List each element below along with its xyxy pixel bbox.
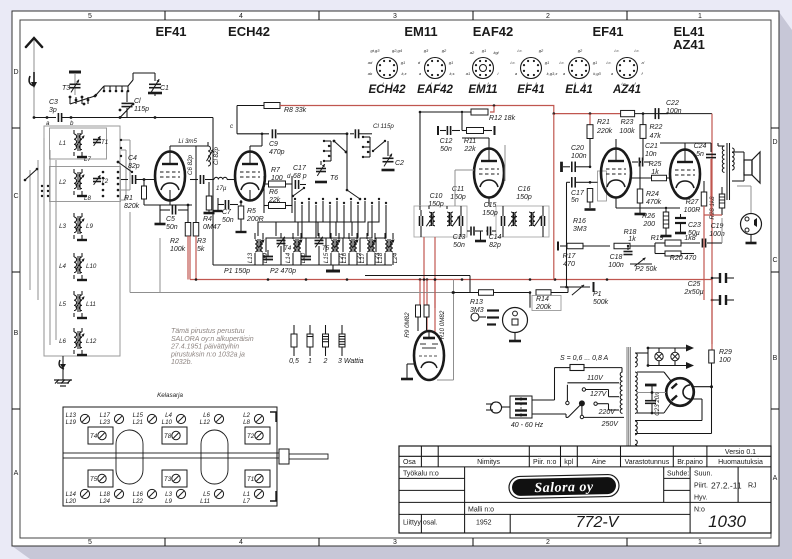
- svg-text:R22: R22: [650, 124, 663, 131]
- salora logo: [509, 474, 619, 498]
- socket EL41: [559, 48, 601, 96]
- resistor R11 22k: [467, 128, 484, 134]
- IF shield boxes: [414, 206, 467, 237]
- svg-text:R16: R16: [573, 218, 586, 225]
- capacitors C25 2x50u: [720, 273, 726, 305]
- svg-text:L8: L8: [243, 419, 250, 426]
- phono socket: [503, 308, 528, 333]
- svg-text:Osa: Osa: [403, 459, 416, 466]
- svg-text:P1: P1: [593, 291, 602, 298]
- svg-text:k,g3,x: k,g3,x: [547, 71, 559, 76]
- svg-text:150p: 150p: [450, 194, 466, 201]
- coil transformer L6/L12: [59, 328, 97, 355]
- svg-text:115p: 115p: [134, 106, 149, 113]
- resistor R3 5k: [193, 223, 199, 237]
- resistor R2 100k: [185, 223, 191, 237]
- svg-text:C11: C11: [452, 186, 464, 193]
- svg-text:C21: C21: [645, 143, 658, 150]
- svg-text:C15: C15: [484, 202, 497, 209]
- svg-text:1: 1: [698, 539, 702, 546]
- svg-text:RJ: RJ: [748, 483, 757, 490]
- svg-text:L15: L15: [133, 412, 144, 419]
- red drop x555: [553, 114, 555, 280]
- svg-text:a2: a2: [470, 50, 475, 55]
- capacitor C14 82p: [488, 227, 491, 236]
- svg-text:R8 33k: R8 33k: [284, 107, 307, 114]
- cathode to C7 R5: [249, 190, 251, 200]
- coil transformer L1/L7: [59, 130, 108, 163]
- wire C3 to junctions: [62, 117, 160, 119]
- grey feedback wire: [716, 242, 722, 244]
- svg-text:L18: L18: [377, 252, 384, 263]
- svg-text:R26: R26: [642, 213, 655, 220]
- svg-text:82p: 82p: [489, 242, 501, 249]
- svg-text:L15: L15: [323, 252, 330, 263]
- cap P2 470p: [301, 257, 311, 260]
- capacitor C20 100n: [560, 162, 563, 172]
- grey rail branches: [159, 238, 161, 293]
- svg-text:L19: L19: [66, 419, 77, 426]
- resistor R29 100: [709, 350, 715, 363]
- svg-text:Suhde:: Suhde:: [667, 471, 689, 478]
- chassis outline: [63, 407, 277, 506]
- svg-text:Suun.: Suun.: [694, 471, 712, 478]
- socket EF41: [510, 48, 558, 96]
- svg-text:0M47: 0M47: [203, 224, 222, 231]
- shaft: [63, 453, 279, 458]
- trimmer T4: [277, 241, 286, 244]
- svg-text:C4: C4: [128, 155, 137, 162]
- svg-text:Cl 115p: Cl 115p: [373, 123, 394, 130]
- potentiometer P1 500k: [567, 287, 569, 293]
- svg-text:L4: L4: [59, 263, 66, 270]
- svg-text:C25: C25: [688, 281, 701, 288]
- svg-text:L17: L17: [100, 412, 111, 419]
- svg-text:R5: R5: [247, 208, 256, 215]
- trimmer box T5: [88, 470, 113, 487]
- svg-text:C22: C22: [666, 100, 679, 107]
- left switch arm: [25, 169, 37, 180]
- svg-text:C: C: [772, 257, 777, 264]
- svg-text:3 Wattia: 3 Wattia: [338, 358, 364, 365]
- svg-text:C13: C13: [453, 234, 466, 241]
- IFT2 primary: [502, 210, 518, 232]
- svg-text:C7: C7: [222, 209, 232, 216]
- svg-text:EF41: EF41: [592, 24, 623, 39]
- red rail mid: [190, 279, 712, 281]
- svg-text:C9: C9: [269, 141, 278, 148]
- svg-text:10n: 10n: [645, 151, 657, 158]
- tube EF41 V5: [601, 149, 631, 198]
- red drop x493: [490, 106, 494, 112]
- svg-text:g1: g1: [593, 60, 597, 65]
- svg-text:L18: L18: [100, 491, 111, 498]
- trimmer T1: [93, 140, 101, 143]
- svg-text:R11: R11: [464, 138, 476, 145]
- centre ground: [478, 230, 483, 232]
- cathode wire: [615, 198, 617, 208]
- svg-text:pirustuksin n:o 1032a ja: pirustuksin n:o 1032a ja: [170, 351, 245, 358]
- cathode circuit C5 50n: [169, 190, 171, 205]
- svg-text:1: 1: [698, 13, 702, 20]
- svg-text:1952: 1952: [476, 520, 492, 527]
- trimmer T5: [315, 241, 324, 244]
- resistor R17 470: [567, 243, 583, 249]
- svg-text:R24: R24: [646, 191, 659, 198]
- svg-text:470: 470: [563, 261, 575, 268]
- svg-text:L7: L7: [243, 498, 250, 505]
- svg-text:C10: C10: [430, 193, 443, 200]
- svg-text:470p: 470p: [269, 149, 285, 156]
- grey wire from 453 down: [453, 280, 455, 381]
- bank left bus wires: [43, 138, 45, 350]
- resistor R18 1k: [614, 243, 630, 249]
- main vertical from junction: [346, 134, 348, 190]
- svg-text:L12: L12: [86, 338, 97, 345]
- svg-text:i.c.: i.c.: [559, 60, 564, 65]
- coupling cap to mixer: [200, 175, 203, 184]
- resistor R12 18k: [471, 109, 488, 115]
- resistor R24 470k: [637, 189, 643, 203]
- svg-text:R6: R6: [269, 189, 278, 196]
- svg-text:Cl: Cl: [134, 98, 141, 105]
- IF wiring: [419, 206, 421, 210]
- svg-text:L16: L16: [341, 252, 348, 263]
- rectifier AZ41: [666, 378, 694, 406]
- svg-text:100R: 100R: [684, 207, 701, 214]
- svg-text:C23 20n: C23 20n: [654, 392, 661, 416]
- osc coil L14/L20: [285, 233, 307, 265]
- svg-text:L2: L2: [243, 412, 250, 419]
- capacitor C21 10n: [639, 158, 642, 167]
- svg-text:L9: L9: [165, 498, 172, 505]
- svg-text:T8: T8: [164, 433, 172, 440]
- svg-text:a1: a1: [466, 71, 470, 76]
- svg-text:B: B: [14, 330, 19, 337]
- ECH42 anode wire: [249, 146, 251, 151]
- svg-text:R18: R18: [624, 229, 637, 236]
- red pair to EM11: [419, 280, 421, 309]
- svg-text:EM11: EM11: [404, 24, 437, 39]
- fan wires to coil bank: [258, 201, 386, 252]
- anode load choke Li 3m5: [169, 146, 171, 151]
- coil transformer L5/L11: [59, 291, 96, 318]
- capacitor C7 50n: [225, 200, 228, 209]
- osc coil L18/L24: [377, 233, 399, 265]
- svg-text:P1 150p: P1 150p: [224, 268, 250, 275]
- svg-text:1030: 1030: [708, 512, 746, 531]
- svg-text:C16: C16: [518, 186, 531, 193]
- antenna symbol: [25, 38, 43, 118]
- svg-text:N:o: N:o: [694, 506, 705, 513]
- svg-text:P2 470p: P2 470p: [270, 268, 296, 275]
- resistor R21 220k: [589, 114, 591, 125]
- svg-text:27.2.-11: 27.2.-11: [711, 481, 742, 491]
- band switch contact row: [294, 198, 387, 204]
- svg-text:110V: 110V: [587, 375, 604, 382]
- svg-text:R21: R21: [597, 119, 610, 126]
- svg-text:L10: L10: [86, 263, 97, 270]
- svg-text:C3: C3: [49, 99, 58, 106]
- 220V tap: [594, 402, 597, 405]
- svg-text:Piir. n:o: Piir. n:o: [533, 459, 556, 466]
- trimmer box T2: [245, 427, 270, 444]
- svg-text:kpl: kpl: [564, 459, 573, 466]
- svg-text:gt,g3: gt,g3: [371, 48, 381, 53]
- C6 82p line: [195, 146, 197, 212]
- svg-text:T5: T5: [322, 245, 330, 252]
- resistor R14 200k: [536, 290, 551, 296]
- svg-text:g1: g1: [482, 48, 486, 53]
- svg-text:R25: R25: [649, 161, 662, 168]
- switch arm b: [120, 104, 133, 118]
- selector dots col: [102, 171, 105, 174]
- svg-text:i.c.: i.c.: [510, 60, 515, 65]
- svg-text:5: 5: [88, 539, 92, 546]
- svg-text:L1: L1: [243, 491, 250, 498]
- svg-text:AZ41: AZ41: [612, 84, 641, 96]
- svg-text:2: 2: [546, 13, 550, 20]
- svg-text:1k: 1k: [628, 236, 636, 243]
- tube ECH42 V2: [235, 152, 265, 201]
- osc coil L15/L21: [323, 233, 345, 265]
- black line above rail: [365, 275, 470, 277]
- svg-text:Tämä pirustus perustuu: Tämä pirustus perustuu: [171, 328, 245, 335]
- svg-text:L11: L11: [86, 301, 96, 308]
- svg-text:L11: L11: [200, 498, 210, 505]
- resistor R19 1k8: [665, 240, 681, 246]
- svg-text:3: 3: [393, 13, 397, 20]
- phone jack: [741, 214, 762, 235]
- svg-text:2: 2: [323, 358, 328, 365]
- capacitor C17 68p: [295, 180, 298, 189]
- svg-text:L22: L22: [133, 498, 144, 505]
- rail B black part: [635, 113, 713, 115]
- svg-text:L10: L10: [162, 419, 173, 426]
- svg-text:470k: 470k: [646, 199, 662, 206]
- svg-text:220k: 220k: [596, 128, 613, 135]
- trimmer box T1: [245, 470, 270, 487]
- osc coil L17/L23: [359, 233, 381, 265]
- svg-text:g3: g3: [424, 48, 429, 53]
- svg-text:k,s: k,s: [449, 71, 454, 76]
- svg-text:R23: R23: [621, 119, 634, 126]
- svg-text:0,5: 0,5: [289, 358, 299, 365]
- resistor R20 470: [665, 251, 681, 256]
- svg-text:1: 1: [308, 358, 312, 365]
- svg-text:C2: C2: [395, 160, 404, 167]
- lamp winding: [635, 353, 637, 367]
- svg-text:Varastotunnus: Varastotunnus: [625, 459, 670, 466]
- svg-text:g2: g2: [539, 48, 544, 53]
- svg-text:R12 18k: R12 18k: [489, 115, 516, 122]
- svg-text:150p: 150p: [516, 194, 532, 201]
- red drops from R2 R3: [187, 236, 189, 280]
- heater winding 2: [635, 440, 637, 454]
- svg-text:R20 470: R20 470: [670, 255, 697, 262]
- svg-text:P2 50k: P2 50k: [635, 266, 657, 273]
- capacitor Cl 115p: [122, 103, 133, 106]
- svg-text:g2,g4: g2,g4: [392, 48, 403, 53]
- svg-text:R28 1k8: R28 1k8: [709, 196, 716, 220]
- phono plug symbol: [471, 313, 479, 321]
- capacitor C3 3p: [58, 113, 61, 122]
- svg-text:17µ: 17µ: [216, 185, 227, 192]
- svg-text:100n: 100n: [571, 153, 587, 160]
- svg-text:2x50µ: 2x50µ: [683, 289, 703, 296]
- svg-text:ad: ad: [368, 60, 373, 65]
- HT winding: [635, 372, 637, 413]
- svg-text:22k: 22k: [463, 146, 476, 153]
- svg-text:T4: T4: [284, 245, 292, 252]
- svg-text:C5: C5: [166, 216, 175, 223]
- svg-text:Hyv.: Hyv.: [694, 495, 708, 502]
- primary winding: [620, 372, 622, 413]
- resistor R23 100k: [621, 110, 635, 116]
- capacitor C13 50n: [471, 227, 474, 236]
- svg-text:L4: L4: [165, 412, 172, 419]
- svg-text:Malli n:o: Malli n:o: [468, 506, 494, 513]
- trimmer box T3: [162, 470, 187, 487]
- cap P1 150p: [263, 257, 273, 260]
- tube EAF42 V3: [474, 149, 504, 198]
- cathode return: [689, 398, 702, 400]
- svg-text:L9: L9: [86, 223, 93, 230]
- coil 17u: [214, 177, 227, 179]
- svg-text:i: i: [498, 71, 499, 76]
- svg-text:C1: C1: [160, 85, 169, 92]
- grid shield box: [598, 171, 607, 201]
- wattage symbol 3 Wattia: [339, 325, 345, 356]
- svg-text:R13: R13: [470, 299, 483, 306]
- lower switch arm: [347, 190, 360, 199]
- capacitor C17 5n: [567, 181, 571, 183]
- svg-text:i.c.: i.c.: [614, 48, 619, 53]
- svg-text:100: 100: [271, 175, 283, 182]
- coil transformer L4/L10: [59, 253, 97, 280]
- svg-text:40 - 60 Hz: 40 - 60 Hz: [511, 422, 544, 429]
- svg-text:Aine: Aine: [592, 459, 606, 466]
- HT winding taps to rectifier: [637, 371, 664, 373]
- svg-text:22k: 22k: [268, 197, 281, 204]
- svg-text:d: d: [287, 173, 291, 180]
- resistor R25 1k: [652, 175, 667, 181]
- svg-text:4: 4: [239, 539, 243, 546]
- svg-text:A: A: [773, 475, 778, 482]
- grid wires grey: [504, 145, 506, 181]
- svg-text:Cl 82p: Cl 82p: [213, 147, 220, 165]
- svg-text:g1: g1: [401, 60, 405, 65]
- red HT rail top: [280, 106, 621, 114]
- osc switch ladder left: [323, 140, 331, 162]
- svg-text:L16: L16: [133, 491, 144, 498]
- svg-text:5: 5: [88, 13, 92, 20]
- svg-text:C23: C23: [688, 222, 701, 229]
- switch arm to C4: [118, 162, 132, 172]
- capacitor C24 5n: [684, 143, 686, 149]
- svg-text:127V: 127V: [590, 391, 608, 398]
- svg-text:T5: T5: [90, 476, 98, 483]
- switch arm right: [373, 141, 385, 151]
- svg-text:D: D: [13, 69, 18, 76]
- capacitor C9 470p: [272, 129, 275, 138]
- speaker: [744, 160, 752, 175]
- svg-text:C17: C17: [571, 190, 585, 197]
- svg-text:Li 3m5: Li 3m5: [178, 138, 197, 145]
- switch contacts c: [103, 90, 106, 93]
- dial lamps: [635, 352, 648, 354]
- wires bank to switch: [121, 139, 130, 141]
- svg-text:Kelasarja: Kelasarja: [157, 392, 183, 399]
- svg-text:ab: ab: [368, 71, 373, 76]
- resistor R13 3M3: [479, 290, 494, 296]
- resistors R9 R10 0M82: [416, 305, 421, 317]
- resistor R1 820k: [142, 186, 147, 199]
- svg-text:Liittyy osal.: Liittyy osal.: [403, 520, 438, 527]
- red feed wires down: [703, 280, 705, 301]
- svg-text:100n: 100n: [666, 108, 682, 115]
- switch arm d: [293, 188, 304, 196]
- svg-text:Salora oy: Salora oy: [534, 480, 594, 496]
- capacitor C23 50u: [675, 218, 686, 223]
- coil transformer L2/L8: [59, 169, 109, 202]
- svg-text:T1: T1: [247, 476, 254, 483]
- red drop left: [189, 236, 191, 280]
- svg-text:5n: 5n: [571, 197, 579, 204]
- svg-text:68 p: 68 p: [293, 173, 307, 180]
- svg-text:100k: 100k: [170, 246, 186, 253]
- svg-text:B: B: [773, 355, 778, 362]
- svg-text:i.c.: i.c.: [606, 60, 611, 65]
- voltage selector: [532, 413, 566, 415]
- resistor R5 200R: [238, 206, 244, 219]
- svg-text:500k: 500k: [593, 299, 609, 306]
- centre tap and C23 20n: [637, 392, 666, 394]
- svg-text:T2: T2: [247, 433, 255, 440]
- svg-text:T3: T3: [62, 85, 70, 92]
- bank bottom bus: [213, 264, 392, 266]
- svg-text:1032b.: 1032b.: [171, 359, 192, 366]
- 110V tap: [566, 401, 569, 404]
- resistor R4 0M47: [206, 196, 212, 210]
- variable capacitor C2: [383, 158, 394, 161]
- svg-text:S = 0,6 ... 0,8 A: S = 0,6 ... 0,8 A: [560, 355, 609, 362]
- svg-text:L12: L12: [200, 419, 211, 426]
- IFT1 primary (C10): [420, 210, 436, 232]
- svg-text:AZ41: AZ41: [673, 37, 705, 52]
- svg-text:R3: R3: [197, 238, 206, 245]
- svg-text:Työkalu n:o: Työkalu n:o: [403, 471, 439, 478]
- resistor R27 100R: [701, 192, 707, 206]
- svg-text:g2: g2: [578, 48, 583, 53]
- svg-text:3: 3: [393, 539, 397, 546]
- svg-text:g2: g2: [442, 48, 447, 53]
- svg-text:T3: T3: [164, 476, 172, 483]
- svg-text:Nimitys: Nimitys: [477, 459, 500, 466]
- svg-text:150p: 150p: [428, 201, 444, 208]
- svg-text:1k: 1k: [651, 169, 659, 176]
- grey AVC rail: [130, 292, 453, 294]
- svg-text:L3: L3: [59, 223, 66, 230]
- svg-text:82p: 82p: [128, 163, 140, 170]
- svg-text:2: 2: [546, 539, 550, 546]
- svg-text:ECH42: ECH42: [228, 24, 270, 39]
- svg-text:EM11: EM11: [468, 84, 497, 96]
- capacitor C12 50n: [447, 126, 450, 135]
- output transformer: [722, 143, 734, 200]
- svg-text:3p: 3p: [49, 107, 57, 114]
- svg-text:L24: L24: [100, 498, 111, 505]
